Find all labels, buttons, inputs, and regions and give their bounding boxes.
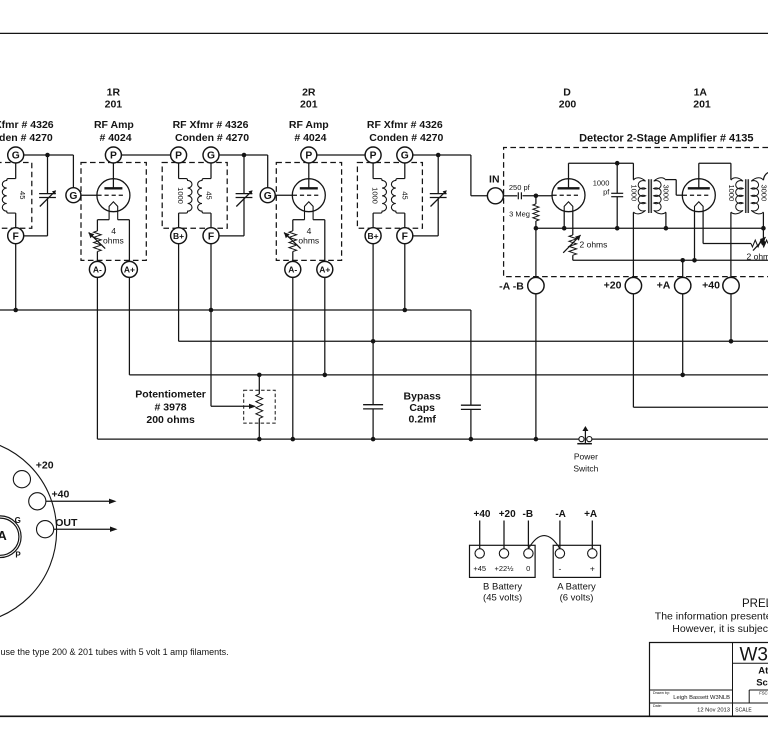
wire -A-B down [535, 294, 537, 439]
wire T4 secondary to grid 1A [666, 179, 676, 181]
terminal F3 [397, 228, 413, 244]
sheet border bottom [0, 715, 768, 717]
svg-text:Drawn by:: Drawn by: [653, 691, 670, 695]
junction dot 1A fil tap [692, 258, 697, 263]
junction dot +A tap [680, 258, 685, 263]
wire bus to rheostat tap [762, 228, 764, 242]
svg-text:+22½: +22½ [495, 564, 515, 573]
rheostat arrow stage2 [284, 233, 301, 249]
terminal +40 [723, 277, 739, 293]
RF amp 1R dashed box [81, 163, 146, 261]
AF filament line [573, 259, 768, 261]
svg-text:F: F [208, 231, 214, 242]
terminal B+2 [171, 228, 187, 244]
svg-text:A-: A- [288, 265, 297, 275]
wire G1 to grid corner [24, 154, 74, 156]
svg-text:A Battery: A Battery [557, 581, 596, 592]
rheostat arrow stage1 [89, 233, 106, 249]
potentiometer element [258, 375, 260, 394]
power switch contacts [579, 437, 584, 442]
terminal IN [487, 188, 503, 204]
junction dot bus end [761, 226, 766, 231]
T3 primary leads [372, 163, 374, 179]
junction dot stage3 tank [436, 153, 441, 158]
svg-text:Bypass: Bypass [404, 391, 442, 403]
wire C3 to F3 [413, 235, 438, 237]
svg-text:A+: A+ [319, 265, 330, 275]
svg-text:2R: 2R [302, 87, 316, 99]
bypass capacitor 1 [372, 341, 374, 404]
svg-text:A+: A+ [124, 265, 135, 275]
svg-text:+20: +20 [604, 280, 622, 292]
bottom bus [97, 438, 579, 440]
svg-text:200: 200 [559, 99, 577, 111]
potentiometer dashed box [244, 390, 276, 423]
svg-text:1000: 1000 [370, 187, 379, 204]
svg-text:FSCM NO.: FSCM NO. [759, 690, 768, 695]
wire A+2 down [324, 277, 326, 375]
svg-text:P: P [15, 550, 21, 559]
rheostat 4 ohms stage1 [94, 231, 102, 252]
svg-text:201: 201 [105, 99, 123, 111]
socket pin +40 [29, 493, 46, 510]
svg-text:Atwater Kent 10 (4550): Atwater Kent 10 (4550) [758, 666, 768, 677]
terminal G3 [397, 147, 413, 163]
wire grid to tube 2R [275, 194, 292, 196]
junction dot 3Meg bottom [534, 226, 539, 231]
svg-text:G: G [264, 191, 272, 202]
svg-text:Conden # 4270: Conden # 4270 [369, 132, 443, 144]
svg-text:250 pf: 250 pf [509, 183, 531, 192]
terminal P1 [105, 147, 121, 163]
wire 1R filament left shoulder [97, 219, 109, 221]
svg-text:G: G [12, 151, 20, 162]
RF transformer T1 dashed box [0, 163, 32, 229]
junction dot -A-B bottom [534, 437, 539, 442]
bypass capacitor 2 [461, 404, 481, 406]
A battery box [553, 545, 600, 577]
svg-text:+40: +40 [52, 489, 70, 501]
wire C1 to F1 [24, 235, 48, 237]
svg-text:+20: +20 [36, 460, 54, 472]
T3 secondary leads [404, 163, 406, 179]
svg-text:45: 45 [18, 191, 27, 199]
svg-text:-: - [558, 564, 561, 574]
terminal P stage2 [301, 147, 317, 163]
rheostat 4 ohms stage2 [289, 231, 297, 252]
title block W3N divider [733, 662, 768, 664]
potentiometer wiper arrow [249, 404, 256, 409]
capacitor 250 pf [517, 192, 519, 199]
svg-text:-B: -B [523, 509, 534, 520]
B battery terminal +45 [475, 549, 484, 558]
wire F1 down to filament bus [15, 244, 17, 310]
wire +20 down to rail [632, 294, 634, 408]
svg-text:P: P [305, 151, 312, 162]
AF transformer T4 primary [632, 163, 634, 179]
svg-text:+40: +40 [702, 280, 720, 292]
svg-text:45: 45 [204, 191, 213, 199]
wire D filament right leg [572, 211, 574, 235]
junction dot stage1 tank [45, 153, 50, 158]
svg-text:Potentiometer: Potentiometer [135, 389, 206, 401]
variable capacitor C2 [243, 155, 245, 194]
capacitor 1000 pf [616, 163, 618, 193]
power switch plunger [584, 430, 586, 444]
T2 secondary coil 45 [198, 179, 211, 214]
potentiometer wiper wire [210, 310, 212, 406]
svg-text:RF Xfmr # 4326: RF Xfmr # 4326 [367, 119, 443, 131]
title block outer box [650, 643, 768, 717]
terminal +A [675, 277, 691, 293]
junction dot D fil [562, 226, 567, 231]
terminal +20 [625, 277, 641, 293]
svg-text:D: D [563, 87, 571, 99]
svg-text:RF Amp: RF Amp [94, 119, 134, 131]
wire P1 to T2 primary [121, 154, 170, 156]
svg-text:The information presented here: The information presented here is believ… [655, 611, 768, 623]
T2 primary coil 1000 [179, 179, 192, 214]
terminal P3 [365, 147, 381, 163]
svg-text:# 4024: # 4024 [294, 132, 326, 144]
power switch bar [577, 443, 592, 445]
junction dot pot bottom [257, 437, 262, 442]
svg-text:P: P [110, 151, 117, 162]
wire 2R filament right shoulder [313, 219, 325, 221]
svg-text:Conden # 4270: Conden # 4270 [175, 132, 249, 144]
T2 secondary leads [210, 163, 212, 179]
T3 primary coil 1000 [373, 179, 386, 214]
svg-text:# 4024: # 4024 [99, 132, 131, 144]
wire G3 to IN corner [413, 154, 471, 156]
svg-text:1000: 1000 [593, 178, 610, 187]
junction dot +A on A+ bus [680, 373, 685, 378]
svg-text:RF Xfmr # 4326: RF Xfmr # 4326 [0, 119, 54, 131]
svg-text:G: G [207, 151, 215, 162]
svg-text:pf: pf [603, 187, 610, 196]
terminal F1 [8, 228, 24, 244]
svg-text:However, it is subject to chan: However, it is subject to change without… [672, 623, 768, 635]
title block fsc divider [749, 689, 768, 691]
wire 2R filament left shoulder [293, 219, 305, 221]
junction dot +40 on B+ bus [729, 339, 734, 344]
junction dot grid D [534, 194, 539, 199]
terminal F2 [203, 228, 219, 244]
svg-text:12 Nov 2013: 12 Nov 2013 [697, 708, 730, 714]
svg-text:Power: Power [574, 452, 598, 462]
T3 secondary coil 45 [391, 179, 404, 214]
AF transformer T5 primary [730, 163, 732, 179]
detector dashed box [504, 148, 768, 277]
rheostat arrow 1A [753, 237, 766, 251]
svg-text:B Battery: B Battery [483, 581, 522, 592]
wire +A up [682, 260, 684, 277]
wire B+3 down [372, 244, 374, 342]
svg-text:2 ohms: 2 ohms [580, 239, 608, 249]
svg-text:Caps: Caps [409, 402, 435, 414]
svg-text:Detector 2-Stage Amplifier # 4: Detector 2-Stage Amplifier # 4135 [579, 133, 753, 145]
svg-text:-A -B: -A -B [499, 280, 524, 292]
terminal A+ stage2 [317, 261, 333, 277]
svg-text:+: + [590, 564, 595, 574]
svg-text:G: G [69, 191, 77, 202]
title block row drawn-by top [650, 689, 733, 691]
wire G1 coil [15, 163, 17, 179]
svg-text:RF Xfmr # 4326: RF Xfmr # 4326 [173, 119, 249, 131]
wire 1R filament right shoulder [118, 219, 130, 221]
svg-text:Conden # 4270: Conden # 4270 [0, 132, 53, 144]
T2 primary leads [178, 163, 180, 179]
svg-text:201: 201 [693, 99, 711, 111]
B battery lead +45 [479, 521, 481, 549]
wire A-2 down [292, 277, 294, 439]
T1 secondary coil 45 [2, 179, 15, 214]
junction dot F3 bus [403, 308, 408, 313]
B battery lead +22 [503, 521, 505, 549]
terminal A+ stage1 [121, 261, 137, 277]
B+ bus [179, 340, 768, 342]
wire IN to C250 [503, 195, 517, 197]
terminal A- stage1 [89, 261, 105, 277]
junction dot bypass2 bottom [469, 437, 474, 442]
svg-text:3000: 3000 [661, 184, 670, 201]
B battery terminal +22 [499, 549, 508, 558]
terminal G1 [8, 147, 24, 163]
svg-text:+20: +20 [499, 509, 516, 520]
wire F3 down [404, 244, 406, 310]
title block divider vertical [732, 643, 734, 717]
arrow OUT [54, 528, 111, 530]
terminal A- stage2 [285, 261, 301, 277]
svg-text:3 Meg: 3 Meg [509, 209, 530, 218]
svg-text:+A: +A [657, 280, 671, 292]
junction dot T4 sec bottom [664, 226, 669, 231]
svg-text:P: P [175, 151, 182, 162]
wire grid to tube 1R [81, 194, 97, 196]
svg-text:3000: 3000 [760, 184, 768, 201]
svg-text:use the type 200 & 201 tubes w: use the type 200 & 201 tubes with 5 volt… [1, 647, 229, 657]
wire A+1 down [128, 277, 130, 375]
variable capacitor C3 [437, 155, 439, 194]
filament bus y310 [0, 309, 471, 311]
wire D plate to T4 [569, 162, 634, 164]
rheostat arrow D [563, 235, 580, 253]
svg-text:1000: 1000 [176, 187, 185, 204]
svg-text:Schematic: Schematic [756, 678, 768, 689]
wire -A-B up to bus [535, 228, 537, 277]
detector grid-return bus [536, 227, 764, 229]
svg-text:1R: 1R [107, 87, 121, 99]
AF transformer T4 secondary [654, 178, 666, 214]
svg-text:ohms: ohms [103, 235, 124, 245]
terminal P2 [171, 147, 187, 163]
socket tube rings [0, 516, 21, 558]
svg-text:1000: 1000 [630, 184, 639, 201]
terminal -A -B [528, 277, 544, 293]
junction dot A+2 bus [323, 373, 328, 378]
wire D filament left leg [563, 211, 565, 228]
variable capacitor C1 [47, 155, 49, 194]
A battery terminal + [588, 549, 597, 558]
wire +A down [682, 294, 684, 375]
svg-text:B+: B+ [368, 231, 379, 241]
tube D [552, 179, 585, 212]
wire B+2 down [178, 244, 180, 342]
junction dot stage2 tank [242, 153, 247, 158]
svg-text:F: F [13, 231, 19, 242]
junction dot pot top [257, 373, 262, 378]
RF amp 2R dashed box [276, 163, 341, 261]
A+ bus [129, 374, 768, 376]
arrow +40 [46, 500, 110, 502]
junction dot A-2 bottom [291, 437, 296, 442]
tube 2R [292, 179, 325, 212]
AF transformer T4 core [647, 179, 649, 213]
wire F2 down [210, 244, 212, 310]
A battery terminal - [555, 549, 564, 558]
svg-text:B+: B+ [173, 231, 184, 241]
title block scale divider [733, 702, 768, 704]
wire rheostat D to AF line [572, 255, 574, 260]
wire rheostat to A- stage2 [292, 252, 294, 262]
terminal B+3 [365, 228, 381, 244]
svg-text:(6 volts): (6 volts) [560, 593, 594, 604]
rheostat 2 ohms 1A [751, 240, 768, 247]
junction dot bypass1 bottom [371, 437, 376, 442]
wire C250 to grid D [523, 195, 553, 197]
wire 1A filament right leg [702, 211, 704, 244]
AF transformer T5 core [744, 179, 746, 213]
wire A-1 down [96, 277, 98, 439]
wire rheostat to A- stage1 [96, 252, 98, 262]
socket pin OUT [37, 521, 54, 538]
svg-text:A-: A- [93, 265, 102, 275]
svg-text:ohms: ohms [298, 235, 319, 245]
svg-text:-A: -A [555, 509, 566, 520]
svg-text:Leigh Bassett W3NLB: Leigh Bassett W3NLB [673, 695, 730, 701]
socket outline circle [0, 438, 57, 624]
svg-text:Switch: Switch [573, 464, 598, 474]
svg-text:+A: +A [584, 509, 597, 520]
svg-text:# 3978: # 3978 [155, 402, 187, 414]
junction dot C1000 bottom [615, 226, 620, 231]
grid circle G stage1 [66, 188, 81, 203]
wire 1A plate to T5 [699, 162, 731, 164]
svg-text:SCALE: SCALE [735, 708, 752, 714]
A battery lead - [559, 521, 561, 549]
svg-text:Date:: Date: [653, 704, 662, 708]
wire G2 to grid corner [219, 154, 268, 156]
battery jumper -B to -A [528, 536, 560, 549]
resistor 3 Meg [535, 196, 537, 204]
junction dot F1 bus [13, 308, 18, 313]
wire P2R to T3 primary [317, 154, 365, 156]
svg-text:201: 201 [300, 99, 318, 111]
svg-text:F: F [402, 231, 408, 242]
svg-text:G: G [401, 151, 409, 162]
svg-text:W3NLB: W3NLB [740, 645, 768, 666]
junction dot F2 bus [209, 308, 214, 313]
sheet border top [0, 32, 768, 34]
junction dot plate D cap [615, 161, 620, 166]
AF transformer T5 secondary [751, 178, 763, 214]
svg-text:A: A [0, 528, 7, 543]
A battery lead + [591, 521, 593, 549]
wire 1A filament left leg [694, 211, 696, 260]
junction dot B+2 bus [371, 339, 376, 344]
title block row date top [650, 702, 733, 704]
tube 1A [682, 179, 715, 212]
svg-text:0.2mf: 0.2mf [408, 413, 436, 425]
svg-text:RF Amp: RF Amp [289, 119, 329, 131]
svg-text:1000: 1000 [727, 184, 736, 201]
svg-text:0: 0 [526, 564, 530, 573]
svg-text:G: G [15, 516, 21, 525]
svg-text:200 ohms: 200 ohms [146, 414, 195, 426]
terminal G2 [203, 147, 219, 163]
svg-text:P: P [370, 151, 377, 162]
RF transformer T2 dashed box [162, 163, 227, 229]
B battery terminal 0 [524, 549, 533, 558]
svg-text:1A: 1A [694, 87, 708, 99]
socket pin +20 [13, 471, 30, 488]
wire +40 down [730, 294, 732, 342]
tube 1R [97, 179, 130, 212]
svg-text:(45 volts): (45 volts) [483, 593, 522, 604]
B battery box [470, 545, 536, 577]
svg-text:+45: +45 [473, 564, 486, 573]
svg-text:+40: +40 [474, 509, 491, 520]
svg-text:IN: IN [489, 174, 500, 186]
wire C2 to F2 [219, 235, 244, 237]
svg-text:45: 45 [400, 191, 409, 199]
RF transformer T3 dashed box [357, 163, 422, 229]
svg-text:OUT: OUT [55, 517, 78, 529]
B battery lead 0 [527, 521, 529, 549]
rheostat 2 ohms D [569, 235, 577, 255]
grid circle G stage2 [260, 188, 275, 203]
svg-text:PRELIMINARY: PRELIMINARY [742, 598, 768, 610]
